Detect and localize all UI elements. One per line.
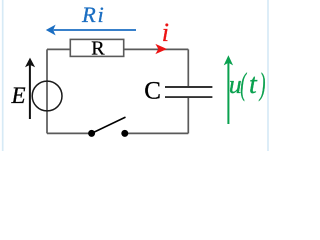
svg-text:R: R [91, 38, 105, 60]
svg-text:i: i [162, 18, 169, 47]
svg-text:Ri: Ri [81, 2, 104, 27]
svg-text:E: E [11, 83, 26, 108]
svg-text:(: ( [240, 66, 247, 102]
svg-text:t: t [249, 69, 258, 100]
svg-text:): ) [258, 66, 265, 102]
svg-text:C: C [144, 78, 161, 105]
